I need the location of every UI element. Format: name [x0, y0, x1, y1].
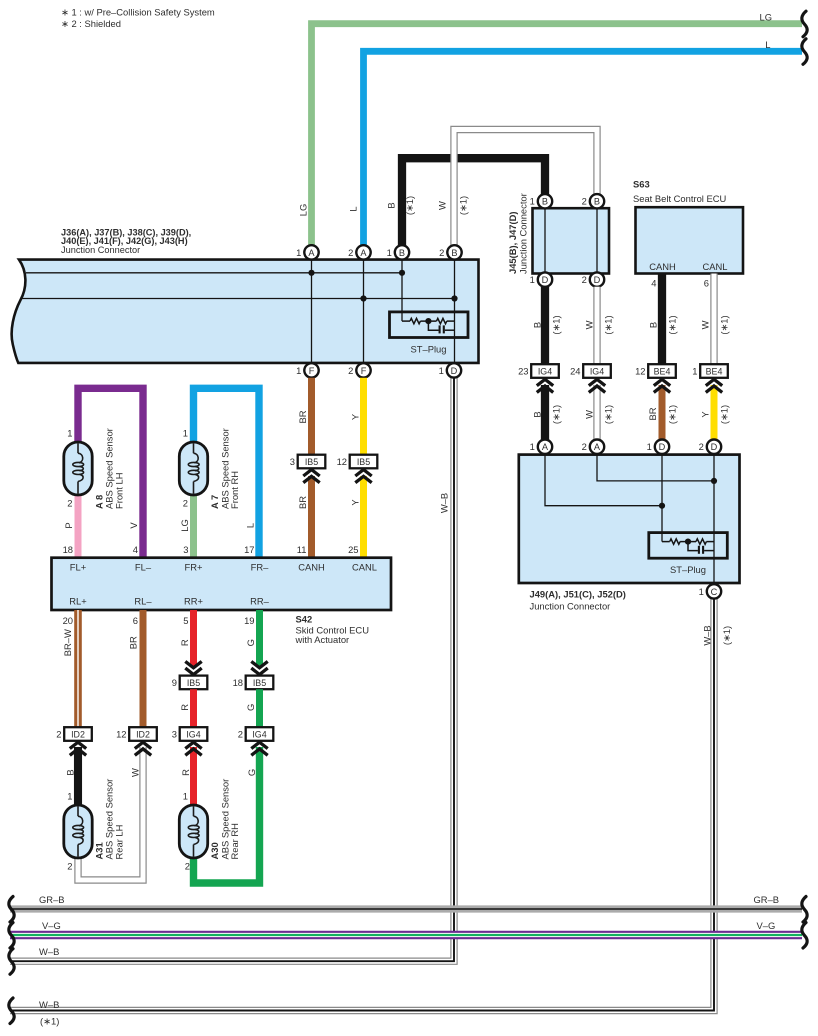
svg-text:S42: S42 [296, 614, 313, 625]
svg-text:A: A [308, 248, 315, 258]
svg-text:V: V [128, 522, 139, 529]
svg-text:B: B [385, 202, 396, 208]
ST-Plug terminator (J49) [649, 533, 728, 559]
node junction 2A/line2 [360, 295, 366, 301]
connector arrow (up) at 12 IB5 [355, 470, 371, 483]
svg-text:∗ 1 : w/ Pre–Collision Safety: ∗ 1 : w/ Pre–Collision Safety System [61, 7, 215, 18]
pin 2F of J36 [348, 363, 371, 377]
svg-text:BR: BR [128, 636, 139, 649]
svg-text:2: 2 [67, 861, 72, 872]
svg-text:Y: Y [350, 413, 361, 420]
node junction 1B/line1 [399, 270, 405, 276]
pin 1B of J45 [530, 194, 553, 208]
wire W (12 ID2 to A31 pin2) [78, 747, 143, 880]
connector 2 ID2 [56, 727, 92, 741]
break symbol V-G right [802, 923, 807, 949]
svg-text:2: 2 [67, 498, 72, 509]
ECU S42 (Skid Control ECU with Actuator) box [52, 558, 392, 610]
svg-text:L: L [765, 39, 770, 50]
wire R (9 IB5 to 3 IG4) [190, 689, 197, 727]
svg-text:1: 1 [530, 274, 535, 285]
connector 2 IG4 [238, 727, 274, 741]
capacitor C2 (ST-Plug J49) [688, 542, 714, 554]
svg-text:IB5: IB5 [357, 457, 370, 467]
break symbol L wire right [802, 39, 807, 65]
svg-text:L: L [245, 523, 256, 528]
svg-text:Y: Y [350, 499, 361, 506]
svg-text:1: 1 [439, 365, 444, 376]
svg-text:W–B: W–B [701, 625, 712, 645]
svg-text:V–G: V–G [757, 920, 776, 931]
svg-text:(∗1): (∗1) [602, 405, 613, 424]
resistor R3 (ST-Plug J49) [670, 539, 680, 544]
wire [420, 320, 436, 322]
svg-text:BE4: BE4 [706, 367, 723, 377]
break symbol GR-B right [802, 897, 807, 923]
svg-text:4: 4 [133, 544, 138, 555]
wire V-G bus [10, 931, 802, 940]
wire Y (*1) (1 BE4 to J49 2D) [711, 385, 718, 447]
svg-text:25: 25 [348, 544, 358, 555]
svg-text:1: 1 [530, 441, 535, 452]
connector arrow (up) at 3 IG4 [185, 742, 201, 755]
pin 1C of J49 [699, 584, 722, 598]
wire Y (IB5 to S42 CANL) [360, 476, 367, 558]
connector 12 BE4 [635, 364, 676, 378]
pin 1B of J36 [387, 245, 410, 259]
svg-text:BR: BR [297, 496, 308, 509]
inductive sensor A8 (ABS Speed Sensor Front LH) [64, 442, 92, 495]
resistor R1 (ST-Plug J36) [410, 318, 420, 323]
svg-text:1: 1 [67, 790, 72, 801]
connector 23 IG4 [518, 364, 559, 378]
svg-text:B: B [531, 411, 542, 417]
node junction 2D/net2 [711, 478, 717, 484]
svg-text:3: 3 [290, 456, 295, 467]
pin 2A of J49 [582, 440, 605, 454]
break symbol W-B bus left [9, 949, 14, 975]
svg-text:(∗1): (∗1) [458, 196, 469, 215]
svg-text:20: 20 [63, 615, 73, 626]
svg-text:A: A [594, 442, 601, 452]
wire BR (*1) (12 BE4 to J49 1D) [659, 385, 666, 447]
svg-text:1: 1 [296, 365, 301, 376]
J36 internal pin column 2A-2F [363, 260, 365, 363]
inductive sensor A7 (ABS Speed Sensor Front RH) [179, 442, 207, 495]
svg-text:23: 23 [518, 366, 528, 377]
wire G (2 IG4 to A30 pin2) [194, 747, 260, 883]
svg-text:(∗1): (∗1) [718, 315, 729, 334]
svg-text:ID2: ID2 [136, 730, 150, 740]
svg-text:Rear RH: Rear RH [229, 823, 240, 859]
connector arrow (down) at 9 IB5 [185, 661, 201, 674]
connector 3 IB5 [290, 455, 326, 469]
wire P (A8 pin2 to S42 FL+) [75, 495, 82, 558]
svg-text:FR+: FR+ [185, 561, 203, 572]
svg-text:(∗1): (∗1) [718, 405, 729, 424]
svg-text:BR: BR [647, 407, 658, 420]
svg-text:Front RH: Front RH [229, 471, 240, 509]
svg-text:LG: LG [298, 204, 309, 217]
pin 1F of J36 [296, 363, 319, 377]
J49 internal net: 1A to 1D [545, 455, 662, 506]
pin 2D of J45 [582, 272, 605, 286]
svg-text:W–B: W–B [39, 946, 59, 957]
svg-text:D: D [451, 366, 458, 376]
svg-text:B: B [451, 248, 457, 258]
resistor R2 (ST-Plug J36) [437, 318, 447, 323]
svg-text:12: 12 [635, 366, 645, 377]
svg-text:ID2: ID2 [71, 730, 85, 740]
wire W-B (*1) (J49 pin 1C to bus) [10, 596, 714, 1011]
svg-text:BR–W: BR–W [62, 629, 73, 656]
svg-text:2: 2 [582, 441, 587, 452]
svg-text:B: B [65, 769, 76, 775]
svg-text:LG: LG [179, 519, 190, 532]
svg-text:12: 12 [116, 729, 126, 740]
wire BR (J36 1F to IB5) [308, 378, 315, 455]
ST-Plug terminator (J36) [390, 312, 469, 338]
svg-text:FL–: FL– [135, 561, 152, 572]
svg-text:IB5: IB5 [305, 457, 318, 467]
ST-Plug wiring row [402, 320, 410, 322]
svg-text:B: B [531, 322, 542, 328]
svg-text:2: 2 [439, 247, 444, 258]
J45 internal pin column 1B-1D [544, 208, 546, 273]
wire BR (IB5 to S42 CANH) [308, 476, 315, 558]
svg-text:W: W [130, 768, 141, 777]
svg-text:(∗1): (∗1) [721, 626, 732, 645]
connector 12 ID2 [116, 727, 157, 741]
connector 12 IB5 [337, 455, 378, 469]
svg-text:Seat Belt Control ECU: Seat Belt Control ECU [633, 193, 726, 204]
svg-text:(∗1): (∗1) [666, 405, 677, 424]
wire GR-B bus [10, 905, 802, 912]
svg-text:3: 3 [183, 544, 188, 555]
wire L (CANL bus to junction J36 pin 2A) [364, 51, 803, 249]
svg-text:2: 2 [348, 365, 353, 376]
svg-text:W: W [437, 201, 448, 210]
pin 1D of J45 [530, 272, 553, 286]
svg-text:1: 1 [692, 366, 697, 377]
connector arrow (down) at 18 IB5 [251, 661, 267, 674]
J49 internal pin column 2D to 1C [713, 455, 715, 583]
svg-text:S63: S63 [633, 179, 650, 190]
svg-text:2: 2 [348, 247, 353, 258]
connector arrow (up) at 2 ID2 [70, 742, 86, 755]
wire R (S42 RR+ to 9 IB5) [190, 610, 197, 667]
svg-text:P: P [63, 522, 74, 528]
svg-text:V–G: V–G [42, 920, 61, 931]
svg-text:R: R [179, 639, 190, 646]
connector arrow (up) at 2 IG4 [251, 742, 267, 755]
svg-text:F: F [361, 366, 367, 376]
wire W-B (J36 pin 1D to ground bus) [10, 374, 454, 961]
wire G (18 IB5 to 2 IG4) [256, 689, 263, 727]
wire [680, 541, 696, 543]
svg-text:W: W [699, 320, 710, 329]
svg-text:RL+: RL+ [69, 596, 87, 607]
svg-text:17: 17 [244, 544, 254, 555]
svg-text:FR–: FR– [251, 561, 269, 572]
pin 2B of J36 [439, 245, 462, 259]
svg-text:W: W [583, 410, 594, 419]
svg-text:G: G [246, 769, 257, 776]
svg-text:IB5: IB5 [253, 678, 266, 688]
wire G (S42 RR- to 18 IB5) [256, 610, 263, 667]
svg-text:LG: LG [759, 12, 772, 23]
svg-text:2: 2 [183, 498, 188, 509]
svg-text:C: C [711, 587, 718, 597]
pin 2A of J36 [348, 245, 371, 259]
svg-text:Front LH: Front LH [113, 473, 124, 509]
connector arrow (up) at 12 ID2 [135, 742, 151, 755]
svg-text:W–B: W–B [39, 999, 59, 1010]
wire B (2 ID2 to A31 pin1) [74, 747, 82, 807]
svg-text:G: G [245, 704, 256, 711]
pin 1D of J49 [647, 440, 670, 454]
wire B (*1) (S63 CANH pin4 to 12 BE4) [658, 274, 666, 365]
connector arrow (up) at 1 BE4 [706, 379, 722, 392]
pin 2D of J49 [699, 440, 722, 454]
svg-text:RR+: RR+ [184, 596, 204, 607]
capacitor C1 (ST-Plug J36) [428, 321, 454, 333]
junction connector J45(B), J47(D) box [533, 208, 610, 273]
inductive sensor A31 (ABS Speed Sensor Rear LH) [64, 805, 92, 858]
J36 internal net line 1 (CANH) [26, 272, 402, 274]
wire V (A8 pin1 to S42 FL-) [78, 388, 143, 558]
inductive sensor A30 (ABS Speed Sensor Rear RH) [179, 805, 207, 858]
connector 9 IB5 [172, 676, 208, 690]
svg-text:Y: Y [699, 411, 710, 418]
J36 internal net line 2 (CANL) [21, 298, 455, 300]
svg-text:Junction Connector: Junction Connector [518, 193, 529, 274]
svg-text:6: 6 [133, 615, 138, 626]
wire B (*1) (J45 1D to 23 IG4) [541, 287, 549, 365]
J36 internal pin column 2B-1D [454, 260, 456, 363]
pin 1A of J36 [296, 245, 319, 259]
svg-text:4: 4 [651, 278, 656, 289]
svg-text:B: B [542, 197, 548, 207]
svg-text:2: 2 [699, 441, 704, 452]
svg-text:IG4: IG4 [538, 367, 552, 377]
pin 1D of J36 [439, 363, 462, 377]
J36 internal pin column 1A-1F [311, 260, 313, 363]
wire L (A7 pin1 to S42 FR-) [194, 388, 260, 558]
J45 internal pin column 2B-2D [596, 208, 598, 273]
svg-text:1: 1 [387, 247, 392, 258]
J49 internal pin column 1D [661, 455, 663, 542]
svg-text:IG4: IG4 [186, 730, 200, 740]
svg-text:W–B: W–B [439, 493, 450, 513]
node junction 2B/line2 [451, 295, 457, 301]
svg-text:R: R [179, 704, 190, 711]
svg-text:19: 19 [244, 615, 254, 626]
svg-text:RR–: RR– [250, 596, 270, 607]
break symbol GR-B left [9, 897, 14, 923]
svg-text:2: 2 [582, 196, 587, 207]
ST-Plug wiring row [662, 541, 670, 543]
wire Y (J36 2F to IB5) [360, 378, 367, 455]
svg-text:G: G [245, 639, 256, 646]
junction connector J49(A), J51(C), J52(D) box [519, 455, 740, 583]
svg-text:2: 2 [185, 861, 190, 872]
connector 18 IB5 [233, 676, 274, 690]
svg-text:with Actuator: with Actuator [295, 634, 350, 645]
svg-text:Junction Connector: Junction Connector [61, 245, 140, 255]
wire W (*1) (S63 CANL pin6 to 1 BE4) [710, 274, 717, 365]
ECU S63 (Seat Belt Control ECU) box [636, 207, 744, 273]
svg-text:L: L [348, 206, 359, 211]
svg-text:J45(B), J47(D): J45(B), J47(D) [507, 211, 518, 274]
connector arrow (up) at 12 BE4 [654, 379, 670, 392]
connector 3 IG4 [172, 727, 208, 741]
svg-text:18: 18 [63, 544, 73, 555]
junction connector J36-J43 box [12, 260, 479, 363]
wire W (*1) (24 IG4 to J49 2A) [593, 385, 600, 447]
svg-text:ST–Plug: ST–Plug [670, 564, 706, 575]
wire W (*1) (J45 2D to 24 IG4) [593, 287, 600, 365]
connector 1 BE4 [692, 364, 728, 378]
svg-text:F: F [309, 366, 315, 376]
node resistor midpoint J49 [685, 539, 691, 545]
break symbol W-B (*1) bus left [9, 998, 14, 1024]
pin 1A of J49 [530, 440, 553, 454]
break symbol V-G left [9, 923, 14, 949]
svg-text:1: 1 [183, 427, 188, 438]
svg-text:ST–Plug: ST–Plug [411, 344, 447, 355]
wire [447, 320, 455, 322]
svg-text:BE4: BE4 [654, 367, 671, 377]
svg-text:6: 6 [704, 278, 709, 289]
svg-text:(∗1): (∗1) [550, 405, 561, 424]
svg-text:1: 1 [647, 441, 652, 452]
svg-text:2: 2 [582, 274, 587, 285]
svg-text:CANH: CANH [298, 561, 325, 572]
svg-text:(∗1): (∗1) [40, 1016, 59, 1027]
pin 2B of J45 [582, 194, 605, 208]
svg-text:Junction Connector: Junction Connector [530, 600, 611, 611]
svg-text:D: D [659, 442, 666, 452]
svg-text:2: 2 [56, 729, 61, 740]
svg-text:GR–B: GR–B [754, 894, 780, 905]
svg-text:1: 1 [530, 196, 535, 207]
wire BR (S42 RL- to 12 ID2) [140, 610, 147, 728]
node resistor midpoint [425, 318, 431, 324]
connector arrow (up) at 23 IG4 [537, 379, 553, 392]
svg-text:J49(A), J51(C), J52(D): J49(A), J51(C), J52(D) [530, 588, 626, 599]
svg-text:R: R [180, 769, 191, 776]
svg-text:∗ 2 : Shielded: ∗ 2 : Shielded [61, 18, 121, 29]
svg-text:2: 2 [238, 729, 243, 740]
svg-text:D: D [542, 275, 549, 285]
svg-text:1: 1 [67, 427, 72, 438]
svg-text:GR–B: GR–B [39, 894, 65, 905]
svg-text:RL–: RL– [134, 596, 152, 607]
svg-text:CANL: CANL [702, 261, 727, 272]
J36 internal pin column 1B [401, 260, 403, 322]
connector arrow (up) at 24 IG4 [589, 379, 605, 392]
svg-text:1: 1 [699, 586, 704, 597]
connector arrow (up) at 3 IB5 [303, 470, 319, 483]
svg-text:(∗1): (∗1) [404, 196, 415, 215]
svg-text:11: 11 [297, 544, 307, 555]
svg-text:A: A [360, 248, 367, 258]
svg-text:B: B [647, 322, 658, 328]
node junction 1A/line1 [308, 270, 314, 276]
svg-text:B: B [399, 248, 405, 258]
svg-text:D: D [594, 275, 601, 285]
wire B (*1) (23 IG4 to J49 1A) [541, 385, 549, 447]
svg-text:A: A [542, 442, 549, 452]
svg-text:CANL: CANL [352, 561, 377, 572]
svg-text:W: W [583, 320, 594, 329]
svg-text:12: 12 [337, 456, 347, 467]
svg-text:(∗1): (∗1) [666, 315, 677, 334]
svg-text:(∗1): (∗1) [550, 315, 561, 334]
svg-text:5: 5 [183, 615, 188, 626]
wire R (3 IG4 to A30 pin1) [190, 747, 197, 807]
svg-text:IG4: IG4 [252, 730, 266, 740]
svg-text:1: 1 [296, 247, 301, 258]
svg-text:9: 9 [172, 677, 177, 688]
connector 24 IG4 [570, 364, 611, 378]
break symbol LG wire right [802, 11, 807, 37]
svg-text:IG4: IG4 [590, 367, 604, 377]
svg-text:(∗1): (∗1) [602, 315, 613, 334]
svg-text:IB5: IB5 [187, 678, 200, 688]
J49 internal net: 2A to 2D [597, 455, 714, 481]
wire BR-W (S42 RL+ to 2 ID2) [74, 610, 82, 728]
wire B (J36 pin 1B to J45 pin 1B) [402, 158, 545, 249]
svg-text:18: 18 [233, 677, 243, 688]
svg-text:Rear LH: Rear LH [113, 825, 124, 860]
svg-text:FL+: FL+ [70, 561, 87, 572]
svg-text:1: 1 [183, 790, 188, 801]
resistor R4 (ST-Plug J49) [696, 539, 706, 544]
wire [706, 541, 714, 543]
svg-text:B: B [594, 197, 600, 207]
wire LG (CANH bus to junction J36 pin 1A) [312, 24, 803, 249]
wire LG (A7 pin2 to S42 FR+) [190, 495, 197, 558]
svg-text:24: 24 [570, 366, 580, 377]
svg-text:D: D [711, 442, 718, 452]
svg-text:3: 3 [172, 729, 177, 740]
wire W (*1) (J36 pin 2B to J45 pin 2B) [454, 130, 597, 250]
svg-text:CANH: CANH [649, 261, 676, 272]
svg-text:BR: BR [297, 410, 308, 423]
node junction 1D/net1 [659, 503, 665, 509]
